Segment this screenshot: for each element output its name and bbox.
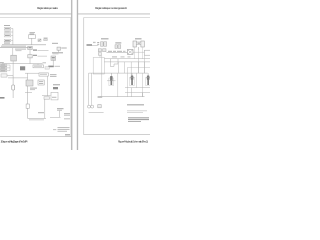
cylinder body 1 xyxy=(109,78,114,86)
note underline row xyxy=(127,103,144,106)
note block bottom right xyxy=(53,128,56,131)
cylinder body 2 xyxy=(130,78,135,86)
small comp bottom left xyxy=(98,105,101,108)
wire top H xyxy=(25,72,39,74)
bus line above cylinders xyxy=(89,72,148,74)
wire stubs from connector boxes xyxy=(11,28,13,40)
line row 1 xyxy=(104,58,150,60)
motor group D xyxy=(133,41,136,47)
stub wire I xyxy=(42,95,51,97)
inline box K1 xyxy=(26,104,29,108)
box H2 xyxy=(38,80,44,85)
vertical feeders xyxy=(89,73,92,105)
box label K0 xyxy=(44,97,50,100)
svg-text:Diagrama: Esquema o Aerogenera: Diagrama: Esquema o Aerogenerador xyxy=(95,6,127,10)
label C xyxy=(115,42,121,43)
reservoir box right xyxy=(144,50,150,55)
manifold comps E xyxy=(98,49,101,52)
inline valve V1 xyxy=(12,85,15,90)
return line 1 xyxy=(125,87,150,89)
bus wire 2 xyxy=(0,47,31,49)
line row 2 xyxy=(104,61,150,63)
trunk down with valve xyxy=(12,76,14,99)
right frame bottom xyxy=(84,133,151,136)
long vertical left xyxy=(101,55,103,96)
left header rule xyxy=(0,13,71,16)
left edge mark xyxy=(0,97,5,99)
staircase link xyxy=(110,62,118,67)
wide box W1 xyxy=(33,65,43,68)
connector box B1 xyxy=(4,27,11,30)
connector box B2 xyxy=(4,31,11,34)
main hydraulic line xyxy=(107,52,128,54)
dark label F4 xyxy=(48,66,54,68)
faint line row 4 xyxy=(127,67,150,69)
small component S2 xyxy=(44,39,47,41)
wire H1 down xyxy=(27,86,29,118)
return line 2 xyxy=(125,92,150,94)
faint row under wire xyxy=(29,118,44,121)
wire E down xyxy=(99,55,101,57)
valve circles bottom left xyxy=(88,105,91,108)
wire from F1 down xyxy=(58,50,60,52)
collector left label xyxy=(0,62,4,63)
right header rule xyxy=(78,13,150,16)
label rows I1 xyxy=(50,74,57,75)
wire from N2 right xyxy=(38,55,48,57)
return line 3 xyxy=(100,96,145,98)
node box N1 xyxy=(28,46,32,49)
label above main line xyxy=(108,51,112,52)
bus labels below xyxy=(1,46,26,47)
label under H1 xyxy=(30,88,37,89)
link pump to reservoir xyxy=(133,51,144,53)
wire N2 down xyxy=(29,58,31,64)
left frame right border xyxy=(70,17,73,136)
wire H down xyxy=(27,73,29,80)
tiny rows list xyxy=(0,64,7,66)
faint label right of F4 xyxy=(55,66,61,67)
bus labels above xyxy=(4,40,10,43)
label near bus end xyxy=(52,43,58,44)
left frame top xyxy=(0,16,71,19)
small text near riser xyxy=(98,96,103,98)
right frame left border xyxy=(83,17,86,134)
bottom wire xyxy=(89,112,104,114)
cylinder body 3 xyxy=(146,78,151,86)
label D xyxy=(135,38,142,39)
right frame top xyxy=(84,16,151,19)
label L2 xyxy=(64,113,70,114)
wire to W1 xyxy=(37,64,39,65)
svg-text:Diagrama: Esquema a los: Diagrama: Esquema a los xyxy=(37,6,58,10)
label right of N1 xyxy=(33,49,37,50)
wire G1 down xyxy=(12,61,14,76)
small box W2 xyxy=(45,67,49,69)
wire from M1 down xyxy=(31,38,33,45)
box F3 xyxy=(51,56,56,60)
valve group B xyxy=(101,42,104,46)
line row 3 xyxy=(112,56,117,57)
box top I xyxy=(39,73,48,76)
bus corner label xyxy=(15,49,26,50)
row stubs xyxy=(7,65,10,71)
label right of F1 xyxy=(61,48,66,49)
module M1 xyxy=(29,35,36,39)
label B xyxy=(101,38,109,39)
drop wires mid xyxy=(110,59,118,67)
label L1 xyxy=(57,108,64,109)
small box with text xyxy=(1,74,7,77)
svg-text:1 Esquema Wiring Diagram (Rev: 1 Esquema Wiring Diagram (Rev 7) of 74 xyxy=(1,140,28,144)
connector list label xyxy=(4,25,10,26)
wire vertical trunk left xyxy=(12,28,14,44)
tall box I4 xyxy=(51,92,58,100)
bottom wire K xyxy=(28,117,46,119)
cylinder 1 xyxy=(111,76,113,85)
bus wire 1 xyxy=(2,44,46,46)
label K2 xyxy=(38,112,44,113)
left frame bottom / footer rule xyxy=(0,135,71,138)
node box N2 xyxy=(28,55,32,58)
cylinder 2 xyxy=(131,75,133,85)
small component S1 xyxy=(38,39,41,41)
wire from N1 right xyxy=(38,49,49,51)
collector right label xyxy=(43,62,47,63)
label S2 xyxy=(44,38,48,39)
pump box with X xyxy=(127,50,133,55)
pump label A xyxy=(87,44,93,46)
riser ticks xyxy=(131,88,142,97)
wide label F2 xyxy=(52,52,63,53)
left page edge xyxy=(71,0,73,150)
gray module G1 xyxy=(11,55,17,61)
trunk from bus down xyxy=(12,48,14,55)
long collector wire xyxy=(2,63,43,65)
svg-text:Figura 4 Hydraulic Schematic (: Figura 4 Hydraulic Schematic (Rev 2) xyxy=(118,140,148,144)
horizontal wire row xyxy=(8,77,28,79)
wire L down xyxy=(59,111,61,118)
label right of N2 xyxy=(33,55,37,56)
wire from N1 down xyxy=(29,50,31,55)
dark block D1 xyxy=(20,66,25,70)
cylinder 3 xyxy=(147,75,149,85)
wire from small box xyxy=(7,75,13,77)
bottom wire L xyxy=(50,116,61,118)
small box F1 xyxy=(57,47,61,50)
wire from label A xyxy=(92,45,98,47)
subsystem boundary box xyxy=(93,58,104,75)
small mark above A xyxy=(93,42,96,43)
connector box B4 xyxy=(4,39,11,42)
wire I down xyxy=(47,76,49,96)
right page edge xyxy=(77,0,79,150)
faint note rows xyxy=(127,109,147,112)
component I3 xyxy=(53,87,58,89)
label I2 xyxy=(53,84,60,85)
wire F3 down xyxy=(52,60,54,65)
wire K down xyxy=(44,99,46,118)
valve group C xyxy=(115,45,117,49)
dark note block xyxy=(128,116,149,119)
label above module M1 xyxy=(30,31,36,34)
page background xyxy=(0,0,150,150)
connector box B3 xyxy=(4,34,11,37)
stub wire xyxy=(25,92,32,94)
box H1 xyxy=(26,80,33,86)
